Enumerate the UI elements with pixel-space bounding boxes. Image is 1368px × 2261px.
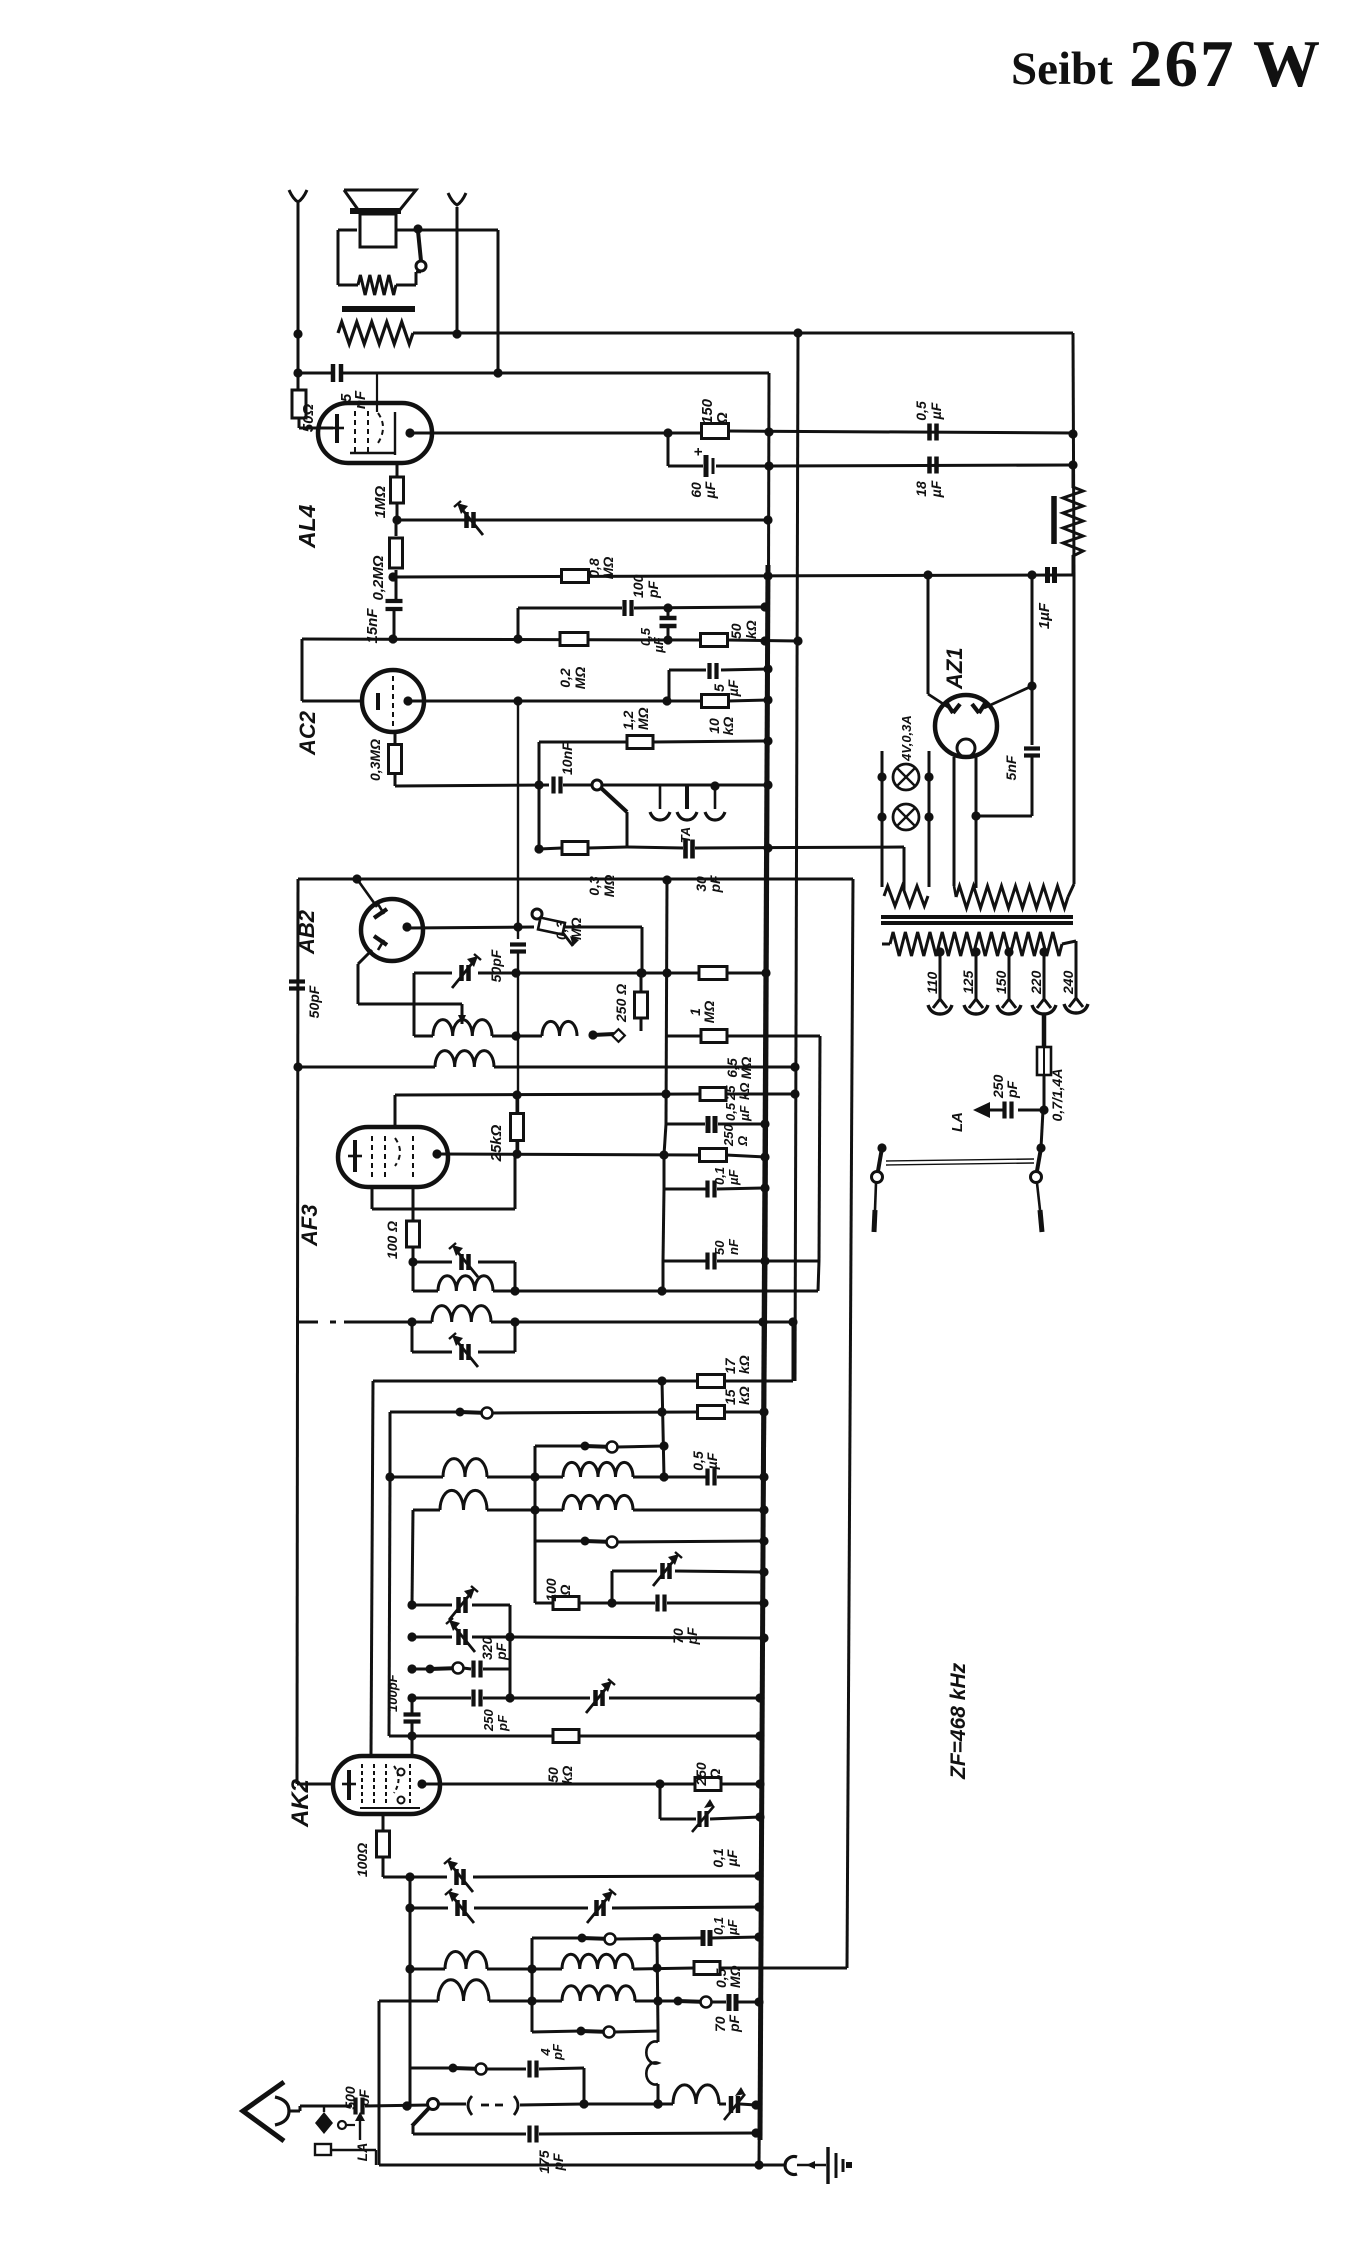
label 0.3Mohm AC2 [367, 739, 383, 781]
ground hook [759, 2157, 826, 2175]
label 0.1uF m [711, 1917, 740, 1936]
arrester LA diamond [315, 2106, 355, 2134]
label 1Mohm AB2 [687, 1001, 717, 1024]
node ant bus [751, 2100, 760, 2109]
label 100ohm AF3 [384, 1221, 400, 1259]
wire output-transformer box top [338, 224, 498, 285]
capacitor C-50pF grid [510, 701, 526, 1156]
label 240 [1060, 970, 1076, 995]
wire AB2 cathode tap [358, 950, 466, 1024]
wire AZ1 plate left [928, 574, 954, 711]
wire 0.3M row y848 [534, 785, 562, 854]
wire LC2 sides [412, 1322, 515, 1352]
resistor R-250 AF3 [700, 1149, 770, 1162]
label 250ohm ak [693, 1762, 723, 1787]
svg-text:100Ω: 100Ω [354, 1843, 370, 1877]
wire bus y333 [413, 328, 1073, 337]
svg-text:50: 50 [712, 1240, 727, 1255]
label 1uF [1036, 602, 1053, 629]
svg-text:pF: pF [550, 2043, 565, 2061]
label 0.2Mohm bus [557, 667, 588, 690]
wire pot to 973 [565, 927, 647, 978]
label 100pF grid [385, 1673, 400, 1712]
wire bus x1073 lower [1073, 575, 1076, 884]
svg-text:AZ1: AZ1 [942, 647, 967, 690]
svg-text:AK2: AK2 [287, 1778, 314, 1828]
terminal TA fork3 [705, 781, 725, 820]
wire bus x768 upper [759, 373, 769, 2165]
svg-text:pF: pF [550, 2153, 566, 2172]
resistor R-0.2M AL4 [390, 520, 403, 601]
wire AB2 grid cap [357, 879, 377, 907]
label 60uF [688, 481, 718, 499]
label 70pF ant [712, 2014, 742, 2033]
svg-text:0,3: 0,3 [553, 920, 569, 940]
capacitor C-5uF [710, 663, 717, 679]
label 25kohm h [723, 1083, 752, 1101]
capacitor C-0.5uF col [708, 1116, 770, 1133]
capacitor C-500pF [356, 2098, 363, 2115]
row y1669 switch [412, 1663, 464, 1674]
resistor R-6.5M [701, 1030, 820, 1043]
wire IF1 row y1067 [293, 1062, 799, 1071]
svg-text:100 Ω: 100 Ω [384, 1221, 400, 1259]
tap 150 [997, 947, 1021, 1014]
row y2032 [532, 2031, 581, 2032]
row y1698 cont [510, 1697, 590, 1700]
tube AF3 electrodes [348, 1136, 442, 1178]
antenna symbol [243, 2082, 289, 2141]
svg-text:4V,0,3A: 4V,0,3A [899, 715, 914, 762]
tube AF3 envelope [338, 1127, 448, 1187]
wire terminal T2 stem [448, 193, 466, 339]
node y577 junction [388, 572, 397, 581]
capacitor C-1uF [1048, 567, 1055, 583]
wire 5nF return [971, 811, 1032, 820]
wire y973 left drop [413, 973, 416, 1036]
svg-text:pF: pF [1004, 1080, 1020, 1099]
switch S-m1 [578, 1934, 616, 1945]
wire bus x798 [795, 333, 798, 1381]
wire y1446 cont [617, 1441, 669, 1450]
capacitor C-100pF [625, 600, 770, 616]
svg-text:250: 250 [481, 1709, 496, 1732]
svg-text:Ω: Ω [707, 1768, 723, 1780]
column x666 0.5uF row [666, 880, 705, 1124]
svg-text:LA: LA [949, 1112, 966, 1132]
resistor R-150 [702, 424, 729, 439]
label 25kohm v [488, 1124, 505, 1162]
wire y466 to right [769, 460, 1078, 469]
wire AK2 cathode [382, 1814, 385, 1831]
row y1938 right [615, 1933, 701, 1942]
row y1877 right [473, 1871, 764, 1880]
trimmer C-IF2b [449, 1333, 478, 1367]
wire 6.5M row [667, 1035, 701, 1038]
svg-text:Ω: Ω [714, 412, 731, 425]
svg-text:240: 240 [1060, 970, 1076, 995]
label 17kohm [722, 1355, 752, 1374]
svg-text:µF: µF [651, 636, 666, 653]
trimmer C-ak3 [586, 1679, 615, 1713]
trimmer C-ak2 [446, 1618, 475, 1652]
svg-text:pF: pF [726, 2014, 742, 2033]
label 5nF [338, 390, 369, 409]
label TA [678, 827, 693, 843]
svg-text:kΩ: kΩ [720, 717, 736, 736]
trimmer C-ak1 [449, 1586, 478, 1620]
svg-text:100pF: 100pF [385, 1673, 400, 1712]
capacitor C-320pF [463, 1637, 510, 1698]
trimmer C-m2 [445, 1889, 474, 1923]
wire bus x297 [297, 879, 298, 1784]
capacitor C-18uF [930, 457, 937, 474]
row y2032 right [614, 2031, 658, 2032]
arrow LA power [973, 1102, 990, 2110]
svg-text:50pF: 50pF [488, 949, 504, 982]
label 1Mohm [372, 485, 389, 518]
wire y1571 row [612, 1570, 657, 1573]
resistor R-15k [698, 1406, 725, 1419]
label 50nF [712, 1238, 741, 1255]
title 267W [1129, 27, 1322, 101]
wire bus y879 [298, 874, 853, 884]
svg-text:Seibt: Seibt [1011, 43, 1113, 95]
label lamps [899, 715, 914, 762]
svg-text:0,1: 0,1 [712, 1167, 727, 1185]
wire y785 cont [602, 780, 773, 789]
transformer core [881, 917, 1073, 923]
label 250pF [481, 1709, 510, 1732]
row y1877 [383, 1872, 447, 1881]
row y1938 [532, 1937, 582, 1940]
svg-text:Ω: Ω [557, 1584, 573, 1596]
wire x664 col [662, 1381, 664, 1477]
label 15nF [364, 608, 381, 644]
inductor L-ant coupling [646, 2031, 658, 2104]
resistor R-0.3M AC2 [389, 732, 402, 786]
lamp rails [877, 751, 933, 887]
wire x820 wrap [818, 1036, 820, 1291]
wire y1819 row [660, 1784, 696, 1819]
tube AZ1 electrodes [946, 702, 986, 757]
label 0.2Mohm [370, 555, 387, 600]
resistor R-bleeder right [1054, 466, 1083, 575]
svg-text:µF: µF [702, 481, 718, 499]
svg-text:ZF=468 kHz: ZF=468 kHz [947, 1662, 970, 1780]
label 0.5uF AC2 [638, 627, 666, 654]
capacitor C-0.1uF m [703, 1930, 764, 1946]
switch S-bf3 [581, 1537, 618, 1548]
label 30pF [693, 875, 723, 894]
wire y433 to right [728, 427, 1078, 438]
svg-text:µF: µF [724, 1849, 740, 1867]
label AZ1 [942, 647, 967, 690]
trimmer C-var AL4 [454, 501, 483, 535]
inductor L-IF2b [432, 1306, 491, 1322]
wire y576 [393, 570, 1074, 580]
svg-text:kΩ: kΩ [736, 1355, 752, 1374]
terminal TA fork2 [677, 786, 697, 820]
svg-text:0,7/1,4A: 0,7/1,4A [1049, 1069, 1065, 1122]
inductor L-ant2 [673, 2085, 719, 2104]
capacitor C-50nF [663, 1253, 819, 1270]
potentiometer P-0.3M [532, 909, 579, 946]
capacitor C-70pF mix [612, 1595, 769, 1612]
wire y786 [395, 780, 549, 789]
wire y1477 right [633, 1476, 706, 1479]
resistor R-250 osc [635, 973, 648, 1031]
wire 5uF row [669, 664, 773, 701]
label 0.3Mohm pot [553, 917, 584, 940]
wire y1322 row [297, 1317, 798, 1326]
svg-text:220: 220 [1028, 970, 1044, 995]
resistor R-50k ak [553, 1730, 765, 1743]
lamp LP1 [893, 764, 919, 790]
svg-text:0,5: 0,5 [723, 1102, 738, 1121]
node junction left y334 [293, 329, 302, 338]
label 10nF [559, 742, 575, 775]
wire x658 col [653, 1938, 662, 2109]
inductor L-bf1b [487, 1462, 633, 1477]
svg-text:Ω: Ω [735, 1136, 750, 1147]
label 18uF [913, 480, 944, 498]
switch S-TA [563, 780, 627, 846]
wire y373 segment B [343, 372, 769, 375]
trimmer C-var1571 [653, 1552, 682, 1586]
label 250ohm AF3 [721, 1124, 750, 1147]
wire x535 seg1 [534, 1446, 537, 1510]
wire AL4 grid tap [376, 373, 378, 412]
inductor L-bf2a [440, 1490, 487, 1510]
label 125 [960, 970, 976, 994]
svg-text:µF: µF [725, 1919, 740, 1936]
capacitor C-0.1uF ak [692, 1799, 765, 1832]
label 50kohm [728, 620, 759, 639]
label 150 [993, 970, 1009, 994]
tap 110 [928, 947, 952, 1014]
wire AL4 anode y433 [410, 428, 703, 437]
resistor R-100 mix [553, 1597, 579, 1610]
wire y1446 row [535, 1445, 585, 1448]
capacitor C-70pF ant [711, 1994, 764, 2011]
inductor L-m2a [438, 1980, 489, 2001]
wire x535 seg3 [535, 1541, 553, 1603]
svg-text:µF: µF [704, 1452, 720, 1470]
wire x410 col [402, 1877, 414, 2111]
svg-text:5nF: 5nF [1003, 755, 1019, 780]
svg-text:MΩ: MΩ [568, 917, 584, 940]
label 0.5Mohm [713, 1965, 743, 1988]
row y2001 coils [379, 1996, 663, 2005]
wire AK2 left lead [297, 1783, 333, 1786]
tube AB2 electrodes [374, 904, 412, 950]
trimmer C-osc1 [452, 954, 481, 988]
capacitor C-30pF [686, 840, 693, 859]
wire x412 col [407, 1510, 416, 1703]
svg-text:250: 250 [721, 1124, 736, 1147]
tube AL4 envelope [318, 403, 432, 463]
tube AK2 electrodes [342, 1764, 427, 1808]
switch S-m2 [577, 2027, 615, 2038]
label 100ohm ak [354, 1843, 370, 1877]
tube AZ1 envelope [935, 695, 997, 757]
wire AB2 anode y928 [408, 922, 534, 931]
wire fuse to switch [1041, 1110, 1043, 1148]
label fuse [1049, 1069, 1065, 1122]
switch S-speaker [416, 231, 426, 271]
wire trimmer row y973 [414, 968, 699, 977]
svg-text:150: 150 [993, 970, 1009, 994]
svg-text:50pF: 50pF [306, 985, 322, 1018]
transformer T-out core [342, 306, 415, 312]
svg-text:pF: pF [645, 580, 661, 599]
svg-text:10nF: 10nF [559, 742, 575, 775]
svg-text:kΩ: kΩ [559, 1766, 575, 1785]
tube AL4 grid resistor R-1M [391, 463, 404, 520]
inductor L-bf2b [487, 1495, 633, 1510]
label 5uF [711, 679, 741, 697]
inductor L-osc1 [433, 1020, 492, 1036]
label 6.5Mohm [724, 1057, 754, 1080]
wire bus y639 [302, 634, 803, 645]
label 1.2Mohm [620, 707, 651, 730]
trimmer C-IF2a [449, 1243, 478, 1277]
capacitor C-100pF grid [404, 1698, 421, 1754]
row y1908 mid [474, 1907, 588, 1910]
tube AB2 envelope [361, 899, 423, 961]
row y1605 cont [472, 1605, 515, 1642]
label 0.5uF top [913, 401, 944, 421]
wire 1.2M row [539, 742, 627, 785]
wire x373 long [371, 1381, 373, 1754]
row y2001 switch [635, 1997, 712, 2008]
svg-text:kΩ: kΩ [737, 1083, 752, 1100]
svg-text:kΩ: kΩ [743, 620, 759, 639]
wire y1510 row [413, 1505, 540, 1514]
svg-text:pF: pF [493, 1642, 509, 1661]
inductor L-m1a [445, 1952, 487, 1970]
wire AZ1 plate right [984, 574, 1037, 708]
row y1908 [410, 1907, 448, 1910]
wire y1510 right [633, 1505, 769, 1514]
trimmer C-m3 [587, 1889, 616, 1923]
lamp LP2 [893, 804, 919, 830]
inductor L-m1b [487, 1954, 633, 1969]
wire AF3 anode y1154 [437, 1149, 699, 1159]
inductor L-bf1a [443, 1459, 487, 1477]
label AF3 [297, 1204, 322, 1247]
svg-text:125: 125 [960, 970, 976, 994]
switch link [886, 1159, 1034, 1165]
inductor L-IF1 [435, 1051, 494, 1067]
coupling symbol [438, 2096, 589, 2115]
svg-text:MΩ: MΩ [701, 1001, 717, 1024]
resistor R-1M AB2 [699, 967, 771, 980]
switch S-mains L [872, 1143, 887, 1232]
label 50pF grid [488, 949, 504, 982]
node g1 junction [392, 515, 401, 524]
switch S-mains R [1031, 1143, 1046, 1232]
svg-text:50Ω: 50Ω [300, 404, 317, 433]
winding W-HT [954, 884, 1074, 908]
inductor L-m2b [489, 1986, 635, 2001]
wire y1291 right [493, 1286, 818, 1295]
svg-text:100: 100 [630, 574, 646, 598]
wire osc coil row [414, 1031, 521, 1040]
inductor L-IF2a [438, 1276, 493, 1291]
wire AF3 LC coil row [413, 1262, 438, 1291]
switch S-bf2 [581, 1442, 618, 1453]
resistor R-0.8M [562, 570, 589, 583]
label AB2 [294, 909, 319, 955]
label 0.8Mohm [586, 557, 616, 580]
svg-text:0,2: 0,2 [557, 668, 573, 688]
row y1698 [412, 1697, 471, 1700]
label 50kohm ak [545, 1766, 575, 1785]
svg-text:µF: µF [928, 402, 944, 420]
label 110 [924, 971, 940, 994]
capacitor C-0.1uF col [708, 1181, 770, 1198]
capacitor C-5nF az [1024, 686, 1040, 816]
row y1637 [412, 1636, 452, 1639]
inductor L-osc2 [492, 1021, 577, 1036]
resistor R-hum (speaker shunt) [338, 272, 421, 295]
svg-text:25: 25 [723, 1085, 738, 1101]
wire 100pF branch [518, 608, 622, 639]
label 50ohm [300, 404, 317, 433]
label 0.1uF col [712, 1167, 741, 1186]
svg-text:kΩ: kΩ [736, 1386, 752, 1405]
svg-text:1µF: 1µF [1036, 602, 1053, 629]
tube AC2 envelope [362, 670, 424, 732]
svg-text:0,1: 0,1 [711, 1917, 726, 1935]
wire y520 [397, 515, 773, 524]
label LA ant [354, 2143, 370, 2162]
svg-text:µF: µF [928, 480, 944, 498]
switch S-bf1 [456, 1408, 493, 1419]
row y1969 right [633, 1968, 694, 1969]
svg-text:µF: µF [737, 1105, 752, 1122]
resistor R-100 AF3 [407, 1221, 420, 1267]
capacitor C-15nF [386, 601, 403, 639]
trimmer C-ant [719, 2087, 756, 2120]
capacitor C-0.5uF top [930, 424, 937, 441]
wire y1571 right [675, 1567, 769, 1576]
tap 220 [1032, 947, 1056, 1014]
label 150ohm [699, 398, 731, 425]
svg-text:0,3MΩ: 0,3MΩ [367, 739, 383, 781]
label 320pF [479, 1636, 509, 1661]
winding W-lamps [884, 886, 928, 906]
svg-text:110: 110 [924, 971, 940, 994]
wire x535 seg2 [534, 1510, 537, 1541]
trimmer C-m1 [444, 1858, 473, 1892]
svg-text:MΩ: MΩ [727, 1965, 743, 1988]
wire ant row [365, 2101, 428, 2110]
arrester ground terminal [315, 2144, 376, 2165]
label AK2 [287, 1778, 314, 1828]
svg-text:nF: nF [726, 1238, 741, 1255]
wire y1412 row [390, 1411, 460, 1414]
label 250pF la [990, 1074, 1020, 1099]
resistor R-50k [701, 634, 728, 647]
capacitor C-60uF [690, 447, 774, 477]
wire AZ1 filament [954, 757, 976, 888]
wire AK2 anode y1784 [422, 1779, 695, 1788]
svg-text:MΩ: MΩ [635, 707, 651, 730]
row y1908 right [612, 1902, 764, 1911]
